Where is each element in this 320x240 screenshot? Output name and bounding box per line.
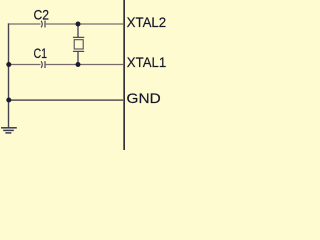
capacitor C2 [41, 21, 45, 28]
crystal XTAL: bottom plate [73, 50, 84, 52]
crystal XTAL: bottom stub wire [77, 51, 79, 64]
wire GND net [8, 99, 123, 101]
junction dot left bus / XTAL1 [6, 62, 11, 67]
wire XTAL1 net: left segment [8, 64, 41, 66]
crystal XTAL: top plate [73, 36, 84, 38]
crystal XTAL: body rectangle [74, 40, 83, 49]
junction dot left bus / GND [6, 98, 11, 103]
svg-text:XTAL1: XTAL1 [127, 54, 167, 70]
svg-text:C2: C2 [34, 7, 50, 23]
capacitor C1 [41, 61, 45, 68]
device edge (IC boundary line) [123, 0, 125, 150]
wire left vertical bus [8, 23, 10, 127]
crystal XTAL: top stub wire [77, 24, 79, 37]
svg-text:XTAL2: XTAL2 [127, 14, 167, 30]
junction dot XTAL1/crystal [76, 62, 81, 67]
wire XTAL1 net: right segment [46, 64, 123, 66]
ground symbol [1, 128, 17, 133]
wire XTAL2 net: right segment [46, 23, 123, 25]
junction dot XTAL2/crystal [76, 22, 81, 27]
svg-text:C1: C1 [34, 45, 48, 61]
svg-text:GND: GND [127, 90, 161, 106]
wire XTAL2 net: left segment [8, 23, 41, 25]
